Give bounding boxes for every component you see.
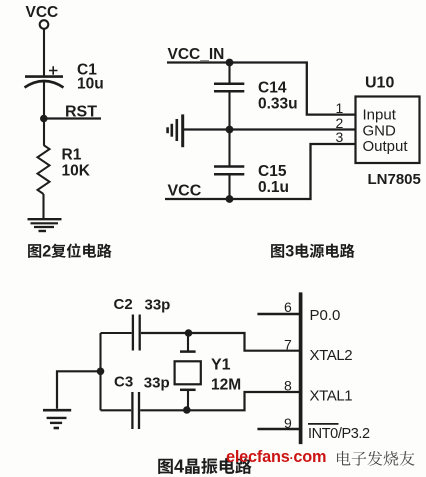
MCU edge bar (299, 292, 303, 444)
pin 6 wire (257, 313, 299, 315)
svg-text:U10: U10 (365, 75, 394, 92)
regulator U10 box (356, 97, 420, 164)
svg-text:VCC: VCC (168, 183, 202, 200)
caption fig3 图3电源电路 (271, 243, 355, 261)
svg-text:XTAL1: XTAL1 (310, 388, 353, 405)
wire XTAL1 rail (101, 392, 300, 410)
wire VCC to C1 (43, 29, 45, 77)
svg-text:INT0/P3.2: INT0/P3.2 (308, 426, 370, 442)
svg-text:0.33u: 0.33u (258, 96, 298, 113)
wire to ground (57, 371, 101, 409)
svg-text:C2: C2 (114, 296, 133, 313)
svg-text:R1: R1 (62, 147, 82, 164)
pin 9 wire (257, 428, 299, 430)
node RST (40, 104, 101, 123)
svg-text:4: 4 (174, 457, 184, 477)
svg-text:3: 3 (336, 129, 344, 145)
svg-text:Y1: Y1 (211, 357, 231, 374)
junction dot GND/C14/C15 (226, 126, 234, 134)
svg-text:GND: GND (363, 123, 397, 140)
junction dot XTAL2/Y1 (185, 329, 193, 337)
svg-text:9: 9 (284, 415, 292, 431)
crystal Y1 (175, 333, 242, 410)
wire VCC_IN rail (167, 63, 356, 115)
wire R1 to ground (42, 194, 44, 219)
wire GND rail (184, 128, 356, 130)
svg-text:Input: Input (363, 107, 397, 124)
svg-text:Output: Output (363, 138, 409, 155)
svg-text:10K: 10K (62, 163, 91, 180)
svg-text:VCC: VCC (26, 4, 59, 21)
wire XTAL2 rail (101, 333, 300, 351)
caption fig4 图4晶振电路 (158, 457, 251, 477)
svg-text:0.1u: 0.1u (258, 179, 289, 196)
junction dot ground branch (97, 368, 105, 376)
junction dot VCC_IN/C14 (226, 59, 234, 67)
ground (reset circuit) (28, 219, 62, 231)
capacitor C1 (25, 62, 104, 93)
svg-text:RST: RST (65, 104, 97, 121)
ground (crystal circuit) (43, 410, 71, 428)
wire left rail (99, 333, 101, 410)
svg-text:C14: C14 (258, 80, 287, 97)
caption fig2 图2复位电路 (28, 243, 112, 261)
svg-text:VCC_IN: VCC_IN (168, 46, 225, 63)
power rail VCC (reset circuit) (26, 4, 59, 29)
svg-text:C3: C3 (114, 373, 133, 390)
svg-text:1: 1 (336, 100, 344, 116)
resistor R1 (38, 145, 91, 194)
junction dot XTAL1/Y1 (183, 406, 191, 414)
svg-text:2: 2 (42, 243, 51, 261)
watermark 电子发烧友 (337, 451, 415, 466)
svg-text:8: 8 (284, 378, 292, 394)
capacitor C3 (114, 373, 170, 429)
svg-text:P0.0: P0.0 (310, 307, 341, 324)
wire C1 to node RST (43, 81, 45, 145)
svg-text:LN7805: LN7805 (368, 171, 421, 188)
svg-text:33p: 33p (144, 374, 170, 391)
capacitor C14 (214, 63, 298, 130)
svg-text:33p: 33p (145, 297, 171, 314)
svg-text:elecfans·com: elecfans·com (226, 448, 326, 466)
capacitor C15 (214, 130, 289, 200)
ground (power circuit, left) (168, 114, 183, 147)
svg-text:6: 6 (284, 299, 292, 315)
junction dot VCC/C15 (226, 195, 234, 203)
svg-text:XTAL2: XTAL2 (310, 347, 353, 364)
svg-text:3: 3 (285, 243, 294, 261)
pin name INT0/P3.2 with overline (308, 424, 370, 442)
wire VCC rail to pin3 (165, 144, 356, 199)
svg-text:10u: 10u (77, 76, 104, 93)
capacitor C2 (114, 296, 171, 351)
svg-text:C15: C15 (258, 163, 287, 180)
svg-text:12M: 12M (211, 377, 241, 394)
svg-text:7: 7 (284, 336, 292, 352)
